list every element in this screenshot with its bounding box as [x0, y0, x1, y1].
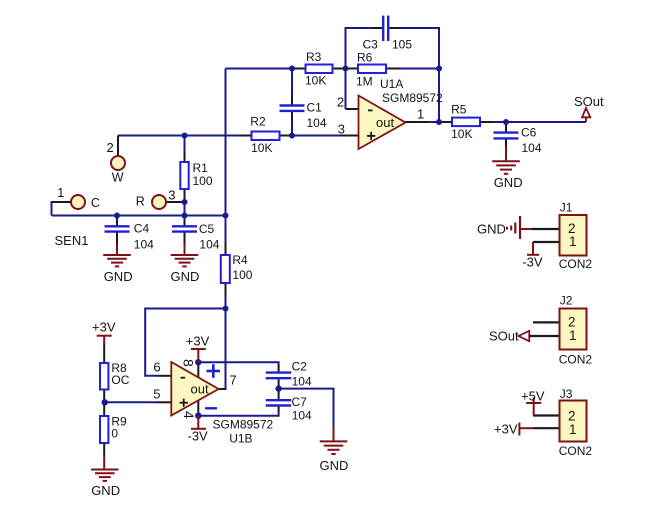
svg-text:R4: R4	[232, 253, 248, 267]
svg-text:3: 3	[338, 121, 345, 136]
svg-text:GND: GND	[477, 222, 506, 237]
svg-text:6: 6	[153, 359, 160, 374]
svg-text:SOut: SOut	[489, 329, 519, 344]
svg-text:C4: C4	[134, 222, 150, 236]
svg-text:J1: J1	[560, 201, 573, 215]
svg-text:U1B: U1B	[229, 432, 252, 446]
svg-text:C6: C6	[521, 126, 537, 140]
svg-text:5: 5	[153, 386, 160, 401]
svg-text:-3V: -3V	[188, 429, 209, 444]
svg-text:SEN1: SEN1	[55, 233, 89, 248]
svg-text:7: 7	[230, 373, 237, 388]
svg-text:C1: C1	[307, 101, 323, 115]
svg-text:SGM89572: SGM89572	[213, 418, 274, 432]
svg-text:CON2: CON2	[559, 352, 593, 366]
svg-text:1: 1	[417, 106, 424, 121]
svg-text:-3V: -3V	[522, 255, 543, 270]
svg-text:1: 1	[57, 185, 64, 200]
svg-text:J2: J2	[560, 294, 573, 308]
svg-text:104: 104	[292, 375, 312, 389]
svg-text:C2: C2	[292, 360, 308, 374]
svg-text:+3V: +3V	[494, 422, 518, 437]
svg-text:1: 1	[569, 422, 577, 437]
svg-text:GND: GND	[320, 458, 349, 473]
svg-text:104: 104	[199, 238, 219, 252]
svg-text:8: 8	[180, 359, 196, 367]
svg-text:C: C	[91, 196, 100, 210]
svg-text:1M: 1M	[356, 75, 373, 89]
svg-text:C7: C7	[292, 395, 308, 409]
svg-text:out: out	[376, 115, 394, 130]
svg-text:1: 1	[569, 234, 577, 249]
svg-text:R5: R5	[451, 103, 467, 117]
svg-text:out: out	[191, 382, 209, 397]
svg-text:GND: GND	[104, 269, 133, 284]
svg-text:R1: R1	[193, 161, 209, 175]
svg-text:GND: GND	[171, 269, 200, 284]
svg-text:3: 3	[168, 188, 175, 203]
svg-text:0: 0	[111, 427, 118, 441]
svg-text:104: 104	[292, 408, 312, 422]
svg-text:2: 2	[337, 95, 344, 110]
svg-text:104: 104	[522, 141, 542, 155]
svg-text:J3: J3	[560, 387, 573, 401]
svg-text:U1A: U1A	[380, 77, 403, 91]
svg-text:1: 1	[569, 328, 577, 343]
svg-text:10K: 10K	[251, 141, 272, 155]
svg-text:C5: C5	[199, 222, 215, 236]
svg-text:+3V: +3V	[92, 320, 116, 335]
svg-text:4: 4	[181, 411, 197, 419]
svg-text:C3: C3	[363, 38, 379, 52]
svg-text:R3: R3	[306, 50, 322, 64]
svg-text:10K: 10K	[451, 127, 472, 141]
svg-text:100: 100	[232, 268, 252, 282]
svg-text:SGM89572: SGM89572	[382, 91, 443, 105]
svg-text:W: W	[112, 171, 124, 185]
svg-text:105: 105	[392, 38, 412, 52]
svg-text:R2: R2	[250, 115, 266, 129]
svg-text:OC: OC	[111, 373, 129, 387]
svg-text:R: R	[136, 195, 145, 209]
svg-text:CON2: CON2	[559, 257, 593, 271]
svg-text:104: 104	[307, 116, 327, 130]
svg-text:GND: GND	[91, 483, 120, 498]
svg-text:GND: GND	[494, 175, 523, 190]
svg-text:2: 2	[107, 140, 114, 155]
svg-text:+3V: +3V	[186, 334, 210, 349]
svg-text:SOut: SOut	[574, 94, 604, 109]
svg-text:104: 104	[134, 238, 154, 252]
svg-text:10K: 10K	[305, 74, 326, 88]
svg-text:CON2: CON2	[559, 444, 593, 458]
svg-text:R6: R6	[357, 51, 373, 65]
svg-text:100: 100	[193, 174, 213, 188]
svg-text:+5V: +5V	[521, 389, 545, 404]
